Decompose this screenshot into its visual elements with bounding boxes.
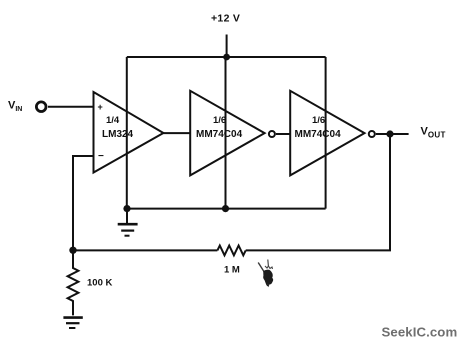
svg-text:+12 V: +12 V bbox=[211, 13, 240, 25]
wire: divider node to R2 bbox=[73, 249, 217, 251]
svg-text:1/6: 1/6 bbox=[213, 115, 226, 126]
svg-text:LM324: LM324 bbox=[102, 129, 134, 140]
wire: +12V stub down to supply rail bbox=[226, 35, 228, 58]
junction dot: feedback divider node bbox=[69, 247, 76, 254]
wire: feedback from inverting input down to divider node bbox=[73, 156, 94, 250]
resistor R2 1 M bbox=[217, 246, 245, 256]
wire: VIN terminal to op-amp noninverting input bbox=[48, 106, 94, 108]
inverter U2 1/6 MM74C04 bbox=[190, 91, 264, 176]
svg-text:1/4: 1/4 bbox=[106, 115, 120, 126]
wire: supply drop through inverter U2 bbox=[225, 57, 227, 209]
svg-text:SeekIC.com: SeekIC.com bbox=[382, 325, 458, 340]
svg-text:+: + bbox=[98, 102, 103, 112]
wire: top supply rail bbox=[127, 56, 326, 58]
svg-text:1/6: 1/6 bbox=[312, 115, 325, 126]
wire: U3 output to VOUT bbox=[376, 133, 409, 135]
ground symbol: below R1 bbox=[63, 318, 82, 328]
op-amp U1 1/4 LM324 bbox=[94, 92, 164, 173]
wire: ground rail bbox=[127, 208, 326, 210]
wire: U2 output to U3 input bbox=[276, 133, 290, 135]
svg-text:1 M: 1 M bbox=[224, 264, 240, 275]
wire: R2 to VOUT node riser bbox=[246, 134, 390, 250]
junction dot: +12V node bbox=[223, 54, 230, 61]
junction dot: ground rail at U1 bbox=[123, 205, 130, 212]
inverter U3 output bubble bbox=[369, 131, 375, 137]
terminal: VIN input bbox=[36, 102, 46, 112]
resistor R1 100 K bbox=[68, 250, 79, 315]
svg-text:MM74C04: MM74C04 bbox=[295, 129, 342, 140]
svg-text:−: − bbox=[98, 151, 104, 162]
wire: op-amp output to U2 input bbox=[163, 132, 190, 134]
inverter U3 1/6 MM74C04 bbox=[290, 91, 364, 176]
ground symbol: supply rail ground bbox=[118, 209, 138, 236]
junction dot: ground rail at U2 bbox=[222, 205, 229, 212]
wire: supply drop through op-amp U1 bbox=[126, 57, 128, 209]
junction dot: VOUT node bbox=[386, 130, 393, 137]
svg-text:100 K: 100 K bbox=[87, 277, 112, 288]
wire: supply drop through inverter U3 bbox=[325, 57, 327, 209]
svg-text:MM74C04: MM74C04 bbox=[196, 129, 243, 140]
artifact: ink smudge near 1 M bbox=[258, 260, 273, 288]
inverter U2 output bubble bbox=[269, 131, 275, 137]
